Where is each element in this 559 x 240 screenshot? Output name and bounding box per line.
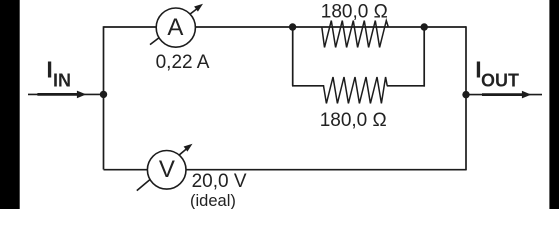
svg-text:A: A — [167, 14, 183, 41]
wire: parallel branch left vertical — [292, 27, 294, 86]
arrow: input current direction — [37, 91, 86, 99]
svg-text:V: V — [159, 156, 175, 183]
svg-text:(ideal): (ideal) — [190, 192, 236, 209]
wire: bottom branch horizontal — [104, 169, 467, 171]
voltmeter needle arrow — [137, 144, 193, 191]
voltmeter letter V — [159, 156, 175, 183]
svg-text:20,0 V: 20,0 V — [192, 171, 247, 192]
svg-text:OUT: OUT — [481, 70, 519, 90]
wire: top branch horizontal — [104, 26, 467, 28]
ammeter letter A — [167, 14, 183, 41]
voltmeter body — [147, 151, 186, 190]
wire: left vertical — [103, 26, 105, 169]
svg-text:IN: IN — [53, 70, 71, 90]
svg-text:0,22 A: 0,22 A — [156, 52, 210, 73]
label 180,0 ohm (bottom resistor) — [320, 110, 387, 131]
node: parallel left junction — [289, 23, 296, 30]
node: parallel right junction — [421, 23, 428, 30]
arrow: output current direction — [482, 91, 531, 99]
wire: right vertical — [465, 26, 467, 170]
wire: parallel branch right vertical — [423, 27, 425, 87]
wire: output lead — [466, 94, 542, 96]
resistor R1 180,0 ohm (top) — [322, 21, 389, 48]
label I_OUT — [475, 56, 519, 90]
node: input junction — [100, 91, 107, 98]
wire: input lead — [28, 93, 104, 95]
node: output junction — [462, 91, 469, 98]
label 180,0 ohm (top resistor) — [321, 1, 388, 22]
resistor R2 180,0 ohm (bottom) — [324, 77, 388, 103]
svg-text:I: I — [46, 56, 52, 82]
ammeter needle arrow — [150, 4, 203, 45]
ammeter body — [156, 8, 195, 47]
svg-text:180,0 Ω: 180,0 Ω — [321, 1, 388, 22]
wire: lower resistor left lead — [292, 85, 324, 87]
wire: lower resistor right lead — [387, 85, 425, 87]
label (ideal) — [190, 192, 236, 210]
svg-text:180,0 Ω: 180,0 Ω — [320, 110, 387, 131]
label 20,0 V (voltmeter reading) — [192, 171, 247, 192]
label I_IN — [46, 56, 71, 90]
label 0,22 A (ammeter reading) — [156, 52, 210, 73]
